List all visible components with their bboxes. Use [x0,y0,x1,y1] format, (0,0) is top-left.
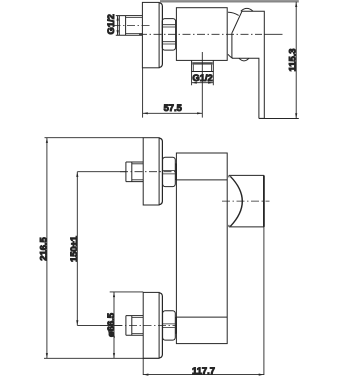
top escutcheon [143,138,162,205]
outlet centerline / 57.5 right extension [201,52,203,118]
body (front view) [176,153,227,344]
115.3 dimension [160,1,299,118]
G1/2 dimension (outlet) [192,72,214,86]
ø66.5 dimension [110,292,144,358]
top supply pipe [126,162,143,182]
valve body (top view) [176,8,227,61]
handle lever (top view) [228,8,264,118]
neck slant [232,11,242,32]
svg-text:150±1: 150±1 [68,236,79,262]
bonnet bottom curve [228,54,233,58]
bottom supply pipe [126,316,143,336]
handle knob (end-on) [229,175,264,227]
pipe inlet stub (top view) [116,16,143,36]
svg-text:117.7: 117.7 [192,365,215,376]
bottom hex nut [163,311,176,340]
flange rolled edge band [159,3,162,68]
svg-text:G1/2: G1/2 [105,14,116,34]
bottom bump arc [239,58,249,61]
G1/2 dimension (pipe thread, top view) [117,16,119,36]
top hex nut [163,157,176,186]
216.5 dimension [44,138,159,359]
top thread stub [175,164,176,180]
top bump arc [241,8,253,11]
bottom thread stub [175,318,176,334]
svg-text:216.5: 216.5 [37,237,48,260]
neck vertical [231,33,233,59]
wall flange plate [142,2,159,67]
knob centerline [222,200,270,202]
svg-text:115.3: 115.3 [286,49,297,72]
hex nut (top view, side profile) [162,19,175,50]
pipe centerline [113,24,153,26]
svg-text:57.5: 57.5 [164,102,182,113]
bottom inlet centerline [100,324,176,326]
top inlet centerline [120,171,176,173]
main centerline (top view) [139,33,262,35]
150±1 dimension [76,172,126,326]
grip outline [232,11,264,118]
bottom escutcheon [143,292,162,358]
svg-text:ø66.5: ø66.5 [105,313,116,337]
outlet stub below body [192,60,214,71]
bonnet top curve [228,12,239,15]
117.7 dimension [143,227,264,376]
svg-text:G1/2: G1/2 [192,72,212,83]
57.5 dimension [143,68,203,118]
